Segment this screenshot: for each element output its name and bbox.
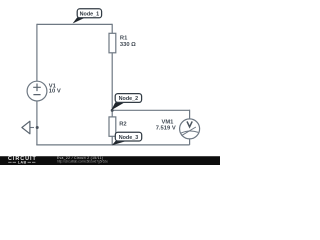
- wire voltmeter horizontal: [112, 109, 189, 111]
- svg-text:R1: R1: [120, 35, 128, 41]
- wire left vertical: [36, 24, 38, 145]
- resistor R1: [109, 33, 116, 53]
- svg-text:Node_1: Node_1: [80, 11, 99, 17]
- junction ground node: [36, 126, 39, 129]
- V1 value label: [49, 83, 61, 94]
- wire top horizontal: [37, 23, 112, 25]
- svg-text:http://circuitlab.com/c6b2wd7g: http://circuitlab.com/c6b2wd7g5r62e: [57, 159, 108, 163]
- wire right vertical (R1/R2 branch): [111, 24, 113, 145]
- svg-text:10 V: 10 V: [49, 89, 61, 95]
- resistor R2: [109, 117, 116, 136]
- wire bottom horizontal: [36, 144, 189, 146]
- junction node 2: [111, 109, 114, 112]
- VM1 value label: [156, 120, 176, 132]
- node label Node_3: [112, 132, 142, 145]
- node label Node_2: [111, 94, 141, 111]
- svg-text:330 Ω: 330 Ω: [120, 42, 136, 48]
- svg-text:7.519 V: 7.519 V: [156, 125, 176, 131]
- footer logo CircuitLab: [8, 156, 37, 164]
- ground: [22, 121, 34, 134]
- svg-text:LAB: LAB: [18, 160, 27, 164]
- svg-text:Node_2: Node_2: [119, 96, 138, 102]
- voltage source V1: [27, 81, 47, 101]
- voltmeter VM1: [180, 119, 200, 139]
- footer bar: [0, 156, 220, 165]
- svg-text:R2: R2: [119, 122, 126, 128]
- node label Node_1: [73, 9, 102, 24]
- R1 value label: [120, 35, 136, 48]
- wire voltmeter vertical: [189, 110, 191, 145]
- svg-text:Node_3: Node_3: [119, 135, 138, 141]
